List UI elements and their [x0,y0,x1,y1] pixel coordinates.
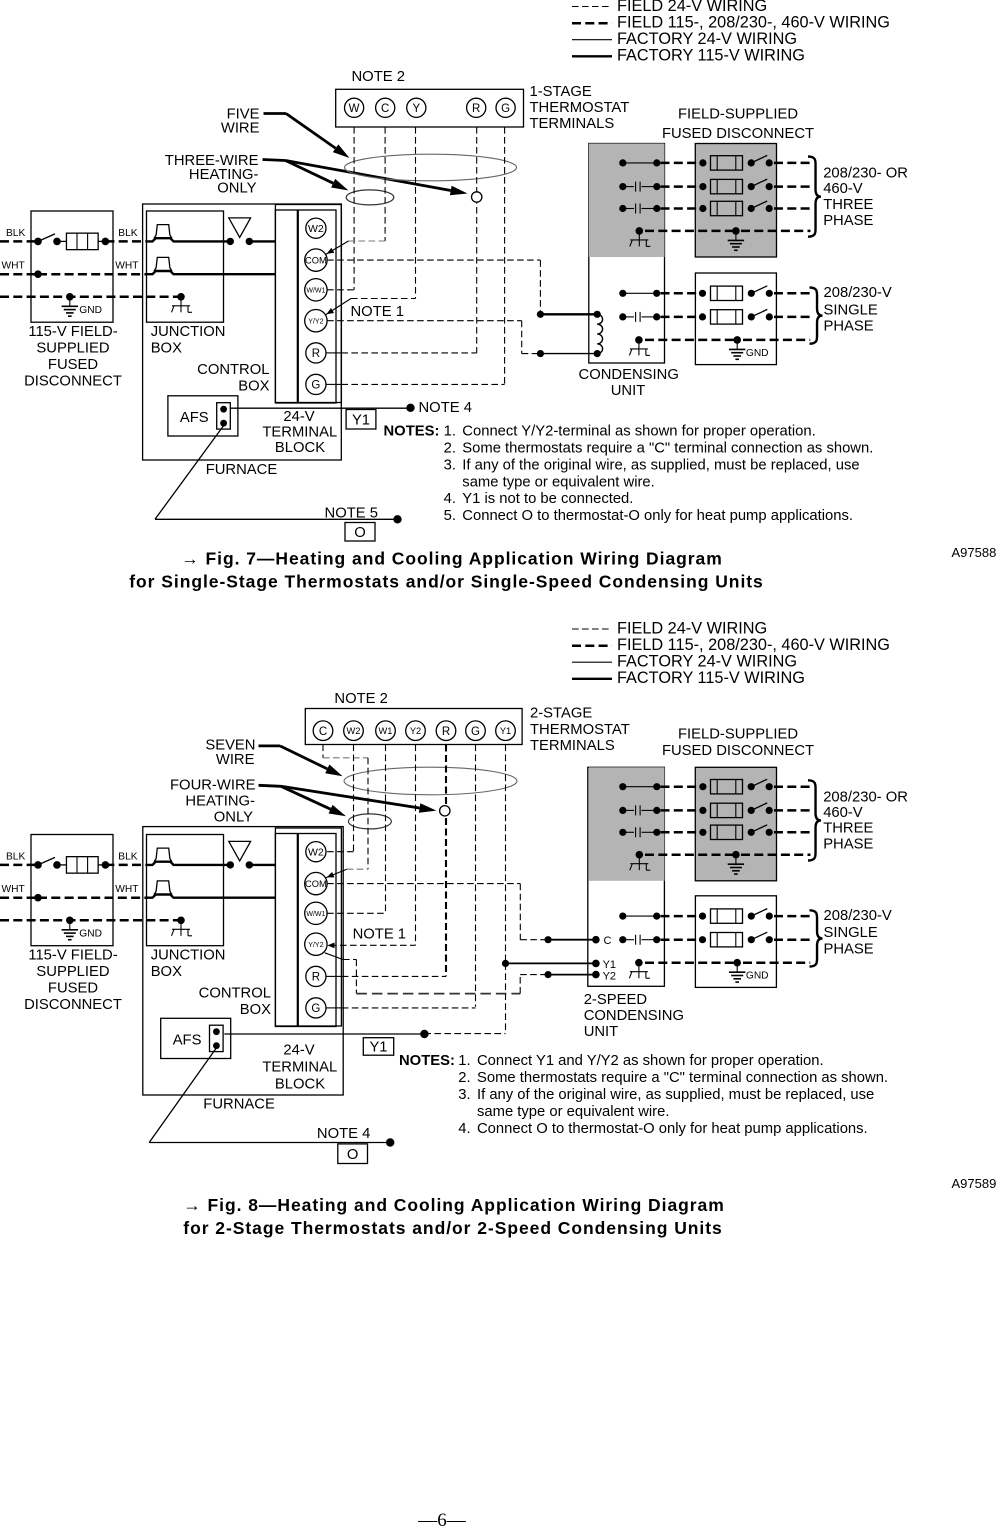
svg-text:NOTE 4: NOTE 4 [419,400,472,416]
svg-text:NOTES:: NOTES: [399,1053,455,1069]
svg-text:O: O [354,525,366,541]
svg-text:AFS: AFS [173,1032,202,1048]
svg-text:TERMINALS: TERMINALS [530,738,615,754]
svg-text:WIRE: WIRE [216,752,255,768]
svg-text:CONDENSING: CONDENSING [579,367,679,383]
svg-text:208/230- OR: 208/230- OR [823,166,908,182]
svg-text:PHASE: PHASE [824,319,874,335]
svg-text:FIELD 115-, 208/230-, 460-V WI: FIELD 115-, 208/230-, 460-V WIRING [617,636,890,654]
svg-text:FURNACE: FURNACE [206,462,278,478]
svg-text:SEVEN: SEVEN [205,737,255,753]
svg-text:AFS: AFS [180,410,209,426]
svg-text:HEATING-: HEATING- [185,793,255,809]
svg-text:If any of the original wire, a: If any of the original wire, as supplied… [462,457,859,473]
svg-text:NOTE 2: NOTE 2 [334,691,387,707]
svg-text:R: R [472,103,480,115]
svg-text:FUSED DISCONNECT: FUSED DISCONNECT [662,126,814,142]
svg-text:DISCONNECT: DISCONNECT [24,997,122,1013]
svg-text:FIELD-SUPPLIED: FIELD-SUPPLIED [678,106,798,122]
svg-text:24-V: 24-V [283,1042,314,1058]
svg-text:COM: COM [305,879,327,889]
svg-text:BLOCK: BLOCK [275,1076,325,1092]
svg-text:—6—: —6— [417,1510,467,1528]
svg-text:NOTES:: NOTES: [384,424,440,440]
svg-text:TERMINALS: TERMINALS [530,116,615,132]
svg-text:3.: 3. [458,1087,470,1103]
svg-text:BLK: BLK [118,228,137,239]
svg-text:C: C [604,935,612,947]
svg-text:4.: 4. [444,491,456,507]
svg-text:SINGLE: SINGLE [824,302,878,318]
svg-text:Y1: Y1 [369,1039,387,1055]
svg-text:W: W [349,103,360,115]
svg-text:Y1 is not to be connected.: Y1 is not to be connected. [462,491,633,507]
svg-text:A97589: A97589 [952,1176,997,1191]
svg-text:2.: 2. [458,1070,470,1086]
svg-text:G: G [311,379,320,391]
svg-text:same type or equivalent wire.: same type or equivalent wire. [477,1104,669,1120]
svg-text:FIELD 115-, 208/230-, 460-V WI: FIELD 115-, 208/230-, 460-V WIRING [617,14,890,32]
svg-text:TERMINAL: TERMINAL [262,1059,337,1075]
svg-text:BLK: BLK [118,852,137,863]
svg-text:5.: 5. [444,508,456,524]
svg-text:BOX: BOX [240,1002,271,1018]
svg-text:Y2: Y2 [410,726,421,736]
svg-text:NOTE 5: NOTE 5 [325,506,378,522]
svg-text:Y1: Y1 [603,959,616,971]
svg-text:NOTE 1: NOTE 1 [353,927,406,943]
svg-text:GND: GND [746,348,769,359]
svg-text:1.: 1. [444,424,456,440]
svg-text:FACTORY 24-V WIRING: FACTORY 24-V WIRING [617,30,797,48]
svg-text:FUSED: FUSED [48,357,98,373]
svg-text:208/230- OR: 208/230- OR [823,789,908,805]
svg-text:Y1: Y1 [500,726,511,736]
svg-text:UNIT: UNIT [611,383,646,399]
svg-text:WIRE: WIRE [221,121,260,137]
svg-text:Y/Y2: Y/Y2 [308,942,323,949]
svg-text:for 2-Stage Thermostats and/or: for 2-Stage Thermostats and/or 2-Speed C… [183,1218,722,1238]
svg-text:BLK: BLK [6,228,25,239]
svg-text:WHT: WHT [2,261,25,272]
svg-text:Y1: Y1 [352,412,370,428]
svg-text:2-STAGE: 2-STAGE [530,706,592,722]
svg-text:115-V FIELD-: 115-V FIELD- [28,948,117,964]
svg-text:PHASE: PHASE [823,213,873,229]
svg-text:R: R [312,348,320,360]
svg-text:Connect Y1 and Y/Y2 as shown f: Connect Y1 and Y/Y2 as shown for proper … [477,1053,824,1069]
svg-text:NOTE 4: NOTE 4 [317,1126,370,1142]
svg-text:208/230-V: 208/230-V [824,908,892,924]
svg-text:FIELD 24-V WIRING: FIELD 24-V WIRING [617,0,767,15]
svg-text:SUPPLIED: SUPPLIED [36,964,109,980]
svg-text:ONLY: ONLY [214,810,253,826]
svg-text:2.: 2. [444,441,456,457]
svg-text:JUNCTION: JUNCTION [151,947,226,963]
svg-text:CONDENSING: CONDENSING [584,1008,684,1024]
svg-text:If any of the original wire, a: If any of the original wire, as supplied… [477,1087,874,1103]
svg-text:FACTORY 24-V WIRING: FACTORY 24-V WIRING [617,653,797,671]
svg-text:PHASE: PHASE [824,942,874,958]
svg-text:SUPPLIED: SUPPLIED [36,341,109,357]
svg-text:UNIT: UNIT [584,1024,619,1040]
svg-text:FIELD 24-V WIRING: FIELD 24-V WIRING [617,619,767,637]
svg-text:FOUR-WIRE: FOUR-WIRE [170,777,256,793]
svg-text:GND: GND [79,929,102,940]
svg-text:C: C [381,103,389,115]
svg-text:Connect O to thermostat-O only: Connect O to thermostat-O only for heat … [462,508,853,524]
svg-text:→ Fig. 8—Heating and Cooling A: → Fig. 8—Heating and Cooling Application… [183,1195,724,1215]
svg-text:W2: W2 [308,846,324,858]
svg-text:R: R [312,971,320,983]
svg-text:W1: W1 [379,726,393,736]
svg-text:Y: Y [412,103,420,115]
svg-text:THERMOSTAT: THERMOSTAT [530,722,630,738]
svg-text:W/W1: W/W1 [306,287,325,294]
svg-text:FACTORY 115-V WIRING: FACTORY 115-V WIRING [617,47,805,65]
svg-text:1.: 1. [458,1053,470,1069]
svg-text:FUSED: FUSED [48,981,98,997]
svg-text:DISCONNECT: DISCONNECT [24,374,122,390]
svg-text:NOTE 1: NOTE 1 [351,304,404,320]
svg-text:3.: 3. [444,457,456,473]
svg-text:FIELD-SUPPLIED: FIELD-SUPPLIED [678,727,798,743]
svg-text:THREE: THREE [823,197,873,213]
svg-text:4.: 4. [458,1121,470,1137]
svg-text:460-V: 460-V [823,805,863,821]
svg-text:W2: W2 [308,223,324,235]
svg-text:TERMINAL: TERMINAL [262,424,337,440]
svg-text:PHASE: PHASE [823,837,873,853]
svg-text:COM: COM [305,255,327,265]
svg-text:NOTE 2: NOTE 2 [352,69,405,85]
svg-text:1-STAGE: 1-STAGE [530,84,592,100]
svg-text:W2: W2 [347,726,361,736]
svg-text:FUSED DISCONNECT: FUSED DISCONNECT [662,743,814,759]
svg-text:CONTROL: CONTROL [199,986,271,1002]
svg-text:460-V: 460-V [823,181,863,197]
svg-text:Y/Y2: Y/Y2 [308,318,323,325]
svg-text:Connect O to thermostat-O only: Connect O to thermostat-O only for heat … [477,1121,868,1137]
svg-text:115-V FIELD-: 115-V FIELD- [28,324,117,340]
svg-text:THREE: THREE [823,821,873,837]
svg-text:same type or equivalent wire.: same type or equivalent wire. [462,474,654,490]
svg-text:G: G [471,726,480,738]
svg-text:FACTORY 115-V WIRING: FACTORY 115-V WIRING [617,669,805,687]
svg-text:W/W1: W/W1 [306,911,325,918]
svg-text:A97588: A97588 [952,545,997,560]
svg-text:JUNCTION: JUNCTION [151,324,226,340]
svg-text:24-V: 24-V [283,409,314,425]
svg-text:Y2: Y2 [603,971,616,983]
svg-text:Some thermostats require a "C": Some thermostats require a "C" terminal … [462,441,873,457]
svg-text:BLK: BLK [6,852,25,863]
svg-text:ONLY: ONLY [217,181,256,197]
svg-text:CONTROL: CONTROL [197,362,269,378]
svg-text:Some thermostats require a "C": Some thermostats require a "C" terminal … [477,1070,888,1086]
svg-text:SINGLE: SINGLE [824,925,878,941]
svg-text:WHT: WHT [115,884,138,895]
svg-text:C: C [319,726,327,738]
svg-text:BOX: BOX [151,340,182,356]
svg-text:O: O [347,1147,359,1163]
svg-text:G: G [501,103,510,115]
svg-text:R: R [442,726,450,738]
svg-text:THERMOSTAT: THERMOSTAT [530,100,630,116]
svg-text:GND: GND [79,305,102,316]
svg-text:for Single-Stage Thermostats a: for Single-Stage Thermostats and/or Sing… [129,572,763,592]
svg-text:WHT: WHT [2,884,25,895]
svg-text:G: G [311,1003,320,1015]
svg-text:BOX: BOX [151,964,182,980]
svg-text:BLOCK: BLOCK [275,440,325,456]
svg-text:GND: GND [746,971,769,982]
svg-text:208/230-V: 208/230-V [824,285,892,301]
svg-text:Connect Y/Y2-terminal as shown: Connect Y/Y2-terminal as shown for prope… [462,424,815,440]
svg-text:FURNACE: FURNACE [203,1096,275,1112]
svg-text:2-SPEED: 2-SPEED [584,992,647,1008]
svg-text:BOX: BOX [238,379,269,395]
svg-text:WHT: WHT [115,261,138,272]
svg-text:→ Fig. 7—Heating and Cooling A: → Fig. 7—Heating and Cooling Application… [181,549,722,569]
